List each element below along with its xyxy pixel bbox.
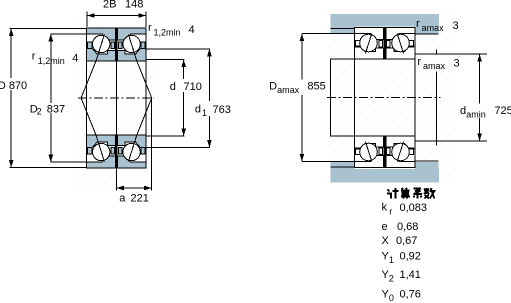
- svg-text:725: 725: [494, 105, 511, 117]
- svg-text:X: X: [382, 235, 390, 247]
- svg-text:amax: amax: [277, 85, 300, 95]
- svg-text:r: r: [417, 56, 421, 68]
- svg-text:r: r: [148, 22, 152, 34]
- svg-text:k: k: [382, 202, 388, 214]
- svg-text:4: 4: [72, 53, 78, 65]
- svg-text:1: 1: [202, 108, 207, 118]
- svg-text:D: D: [269, 81, 277, 93]
- svg-text:3: 3: [453, 20, 459, 32]
- svg-text:2: 2: [37, 106, 42, 116]
- svg-text:4: 4: [189, 24, 195, 36]
- svg-text:a: a: [119, 193, 126, 205]
- svg-text:r: r: [389, 206, 392, 216]
- svg-text:0,76: 0,76: [400, 288, 421, 300]
- svg-text:1,41: 1,41: [400, 269, 421, 281]
- svg-text:1,2min: 1,2min: [38, 56, 65, 66]
- svg-text:0,083: 0,083: [400, 202, 428, 214]
- svg-text:0,67: 0,67: [396, 235, 417, 247]
- svg-text:amax: amax: [423, 61, 446, 71]
- svg-text:837: 837: [47, 103, 65, 115]
- svg-text:221: 221: [131, 193, 149, 205]
- svg-text:3: 3: [454, 58, 460, 70]
- svg-text:0,68: 0,68: [397, 221, 418, 233]
- svg-text:710: 710: [184, 81, 202, 93]
- svg-text:2: 2: [389, 273, 394, 283]
- svg-text:1: 1: [389, 255, 394, 265]
- svg-text:0,92: 0,92: [400, 251, 421, 263]
- svg-text:855: 855: [307, 81, 325, 93]
- svg-text:d: d: [195, 104, 201, 116]
- svg-text:amin: amin: [466, 110, 486, 120]
- svg-text:d: d: [460, 105, 466, 117]
- svg-text:2B 148: 2B 148: [103, 0, 143, 11]
- svg-text:D 870: D 870: [0, 80, 27, 92]
- svg-text:amax: amax: [422, 23, 445, 33]
- svg-text:r: r: [32, 51, 36, 63]
- svg-text:d: d: [170, 81, 176, 93]
- svg-text:0: 0: [389, 293, 394, 303]
- svg-text:1,2min: 1,2min: [154, 28, 181, 38]
- svg-text:r: r: [416, 18, 420, 30]
- svg-text:763: 763: [213, 104, 231, 116]
- svg-text:e: e: [382, 221, 388, 233]
